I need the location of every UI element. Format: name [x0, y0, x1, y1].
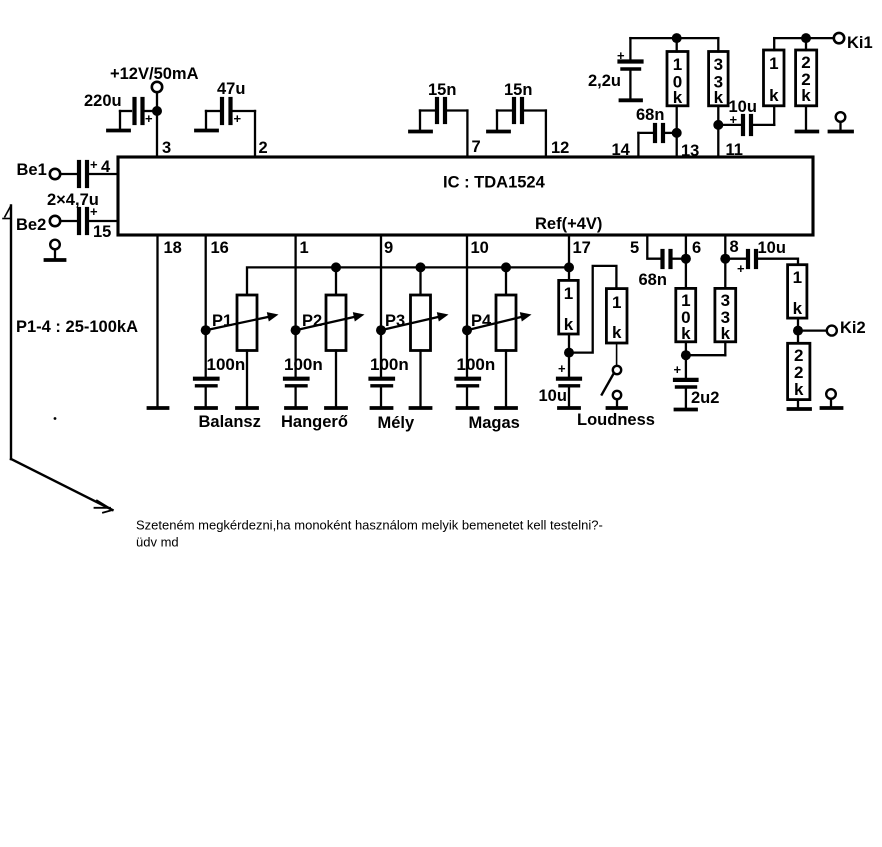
svg-text:Ki1: Ki1 — [847, 34, 873, 52]
svg-text:+: + — [730, 112, 738, 127]
svg-text:100n: 100n — [457, 355, 496, 374]
svg-text:P1-4 : 25-100kA: P1-4 : 25-100kA — [16, 318, 138, 336]
svg-text:+: + — [234, 111, 242, 126]
svg-text:Be2: Be2 — [16, 216, 46, 234]
svg-text:14: 14 — [612, 141, 631, 159]
svg-text:10u: 10u — [539, 387, 567, 405]
svg-text:5: 5 — [630, 239, 639, 257]
svg-text:1: 1 — [612, 293, 621, 312]
svg-text:10: 10 — [471, 239, 489, 257]
svg-text:k: k — [769, 86, 779, 105]
svg-text:100n: 100n — [370, 355, 409, 374]
svg-text:Ref(+4V): Ref(+4V) — [535, 215, 602, 233]
svg-text:k: k — [681, 324, 691, 343]
svg-text:2,2u: 2,2u — [588, 72, 621, 90]
svg-text:Hangerő: Hangerő — [281, 413, 348, 431]
svg-text:47u: 47u — [217, 80, 245, 98]
svg-text:Mély: Mély — [378, 414, 416, 432]
svg-text:220u: 220u — [84, 92, 122, 110]
svg-text:1: 1 — [300, 239, 309, 257]
svg-text:Be1: Be1 — [17, 161, 47, 179]
svg-text:P2: P2 — [302, 312, 322, 330]
svg-text:+: + — [674, 362, 682, 377]
svg-text:16: 16 — [211, 239, 229, 257]
svg-text:9: 9 — [384, 239, 393, 257]
svg-text:k: k — [801, 86, 811, 105]
svg-text:10u: 10u — [758, 239, 786, 257]
svg-text:3: 3 — [714, 55, 723, 74]
svg-text:68n: 68n — [639, 271, 667, 289]
svg-text:1: 1 — [793, 268, 802, 287]
svg-text:Ki2: Ki2 — [840, 319, 866, 337]
svg-text:Loudness: Loudness — [577, 411, 655, 429]
svg-text:Balansz: Balansz — [199, 413, 261, 431]
svg-text:k: k — [673, 88, 683, 107]
svg-text:2: 2 — [259, 139, 268, 157]
svg-text:1: 1 — [769, 54, 778, 73]
svg-text:+: + — [558, 361, 566, 376]
svg-text:+12V/50mA: +12V/50mA — [110, 65, 199, 83]
svg-text:6: 6 — [692, 239, 701, 257]
svg-text:IC : TDA1524: IC : TDA1524 — [443, 174, 546, 192]
svg-text:k: k — [612, 323, 622, 342]
svg-text:100n: 100n — [207, 355, 246, 374]
svg-text:+: + — [617, 48, 625, 63]
svg-text:13: 13 — [681, 142, 699, 160]
svg-text:üdv md: üdv md — [136, 535, 179, 550]
svg-text:100n: 100n — [284, 355, 323, 374]
svg-text:P1: P1 — [212, 312, 232, 330]
svg-text:15n: 15n — [504, 81, 532, 99]
svg-text:k: k — [794, 380, 804, 399]
svg-text:P3: P3 — [385, 312, 405, 330]
svg-text:k: k — [714, 88, 724, 107]
svg-text:+: + — [737, 261, 745, 276]
svg-text:+: + — [145, 111, 153, 126]
svg-text:15: 15 — [93, 223, 111, 241]
svg-text:18: 18 — [164, 239, 182, 257]
svg-text:4: 4 — [101, 158, 111, 176]
svg-text:+: + — [90, 157, 98, 172]
svg-text:11: 11 — [726, 141, 743, 159]
svg-text:7: 7 — [472, 138, 481, 156]
svg-text:1: 1 — [564, 284, 573, 303]
svg-text:+: + — [90, 204, 98, 219]
svg-text:15n: 15n — [428, 81, 456, 99]
svg-text:12: 12 — [551, 139, 569, 157]
svg-text:k: k — [721, 324, 731, 343]
svg-text:8: 8 — [730, 238, 739, 256]
svg-text:17: 17 — [573, 239, 591, 257]
svg-text:P4: P4 — [471, 312, 492, 330]
svg-text:Szeteném megkérdezni,ha monoké: Szeteném megkérdezni,ha monoként használ… — [136, 518, 603, 533]
svg-text:3: 3 — [162, 139, 171, 157]
svg-text:1: 1 — [673, 55, 682, 74]
svg-text:k: k — [793, 299, 803, 318]
svg-text:68n: 68n — [636, 106, 664, 124]
svg-text:k: k — [564, 315, 574, 334]
svg-text:2u2: 2u2 — [691, 389, 719, 407]
svg-text:Magas: Magas — [469, 414, 520, 432]
